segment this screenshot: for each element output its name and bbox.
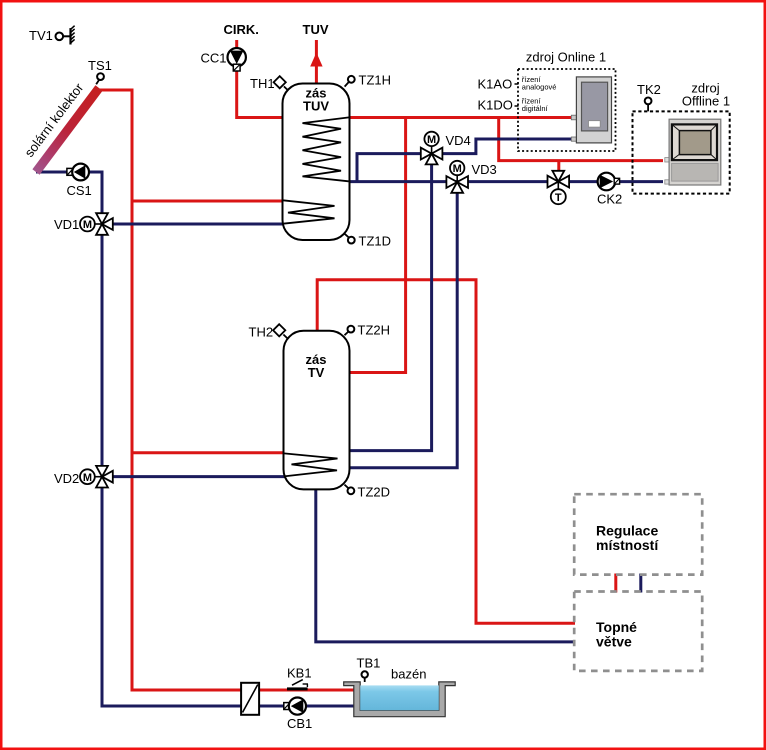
svg-text:TZ2H: TZ2H xyxy=(358,323,391,338)
sensor TZ1D xyxy=(345,234,391,249)
offline boiler icon xyxy=(665,119,721,185)
valve VD3 xyxy=(446,161,496,193)
svg-text:M: M xyxy=(83,219,92,231)
pump CC1 with check valve xyxy=(201,22,259,71)
sensor TB1 xyxy=(357,656,381,683)
pump CS1 with check valve xyxy=(67,164,92,198)
svg-text:T: T xyxy=(555,192,562,204)
svg-text:CIRK.: CIRK. xyxy=(224,22,259,37)
TUV arrow xyxy=(303,22,329,67)
online boiler icon xyxy=(571,77,611,143)
svg-text:CK2: CK2 xyxy=(597,192,622,207)
wire red to offline boiler xyxy=(499,118,663,161)
pump CK2 with check valve xyxy=(597,173,622,207)
filter xyxy=(241,683,259,715)
switch KB1 xyxy=(287,666,312,691)
svg-text:větve: větve xyxy=(596,634,632,650)
tank zas TV xyxy=(284,331,350,490)
wire navy VD1 branch to tank1 xyxy=(102,223,284,226)
svg-text:bazén: bazén xyxy=(391,667,426,682)
svg-text:TH2: TH2 xyxy=(249,325,274,340)
wire red main supply to online boiler xyxy=(349,116,572,119)
svg-text:K1AO: K1AO xyxy=(478,77,513,92)
wire navy VD4 down to tank2 xyxy=(350,155,432,451)
wire navy tank2 bottom to heating branches xyxy=(316,490,575,642)
wire navy tank1 right main return xyxy=(350,180,664,183)
svg-text:zdroj Online 1: zdroj Online 1 xyxy=(526,50,606,65)
wire navy VD4 line to online boiler xyxy=(357,139,572,182)
svg-text:VD1: VD1 xyxy=(54,217,79,232)
svg-text:M: M xyxy=(427,134,436,146)
wire navy VD2 branch to tank2 xyxy=(102,475,285,478)
wire red TUV outlet xyxy=(315,40,318,85)
zdroj Offline 1 box xyxy=(633,81,731,194)
svg-text:místností: místností xyxy=(596,537,659,553)
svg-text:K1DO: K1DO xyxy=(478,98,513,113)
zdroj Online 1 box xyxy=(478,50,616,152)
svg-text:CS1: CS1 xyxy=(67,183,92,198)
solar collector xyxy=(21,80,102,175)
svg-text:CB1: CB1 xyxy=(287,716,312,731)
svg-text:TZ2D: TZ2D xyxy=(358,485,391,500)
Topne vetve box xyxy=(574,592,702,671)
svg-text:CC1: CC1 xyxy=(201,50,227,65)
svg-text:TZ1H: TZ1H xyxy=(359,72,392,87)
pump CB1 with check valve xyxy=(284,698,312,732)
pool bazen xyxy=(344,667,456,717)
sensor TZ2H xyxy=(345,323,391,338)
valve VD4 xyxy=(421,132,471,165)
wire red branch to tank2 coil xyxy=(132,451,285,454)
svg-text:TB1: TB1 xyxy=(357,656,381,671)
svg-text:VD4: VD4 xyxy=(446,133,471,148)
svg-text:TUV: TUV xyxy=(303,22,329,37)
sensor TH1 xyxy=(250,76,288,91)
wire red CIRK line xyxy=(237,40,284,118)
wire red tank2 right riser xyxy=(350,118,406,373)
svg-text:digitální: digitální xyxy=(522,104,549,113)
wire red tick regulace xyxy=(614,574,617,593)
svg-text:VD3: VD3 xyxy=(472,162,497,177)
Regulace mistnosti box xyxy=(574,494,702,574)
svg-text:TV: TV xyxy=(308,365,325,380)
svg-text:VD2: VD2 xyxy=(54,471,79,486)
svg-text:analogové: analogové xyxy=(522,82,557,91)
svg-text:TH1: TH1 xyxy=(250,76,275,91)
sensor TZ2D xyxy=(345,485,391,500)
sensor TZ1H xyxy=(345,72,391,87)
svg-text:KB1: KB1 xyxy=(287,666,312,681)
wire red branch to tank1 lower coil xyxy=(132,200,284,203)
svg-text:M: M xyxy=(83,472,92,484)
svg-text:M: M xyxy=(453,163,462,175)
sensor TS1 xyxy=(88,58,112,85)
valve VD1 xyxy=(54,213,113,235)
wire red solar loop xyxy=(99,90,354,690)
wire navy tick regulace xyxy=(639,574,642,593)
svg-text:TK2: TK2 xyxy=(637,82,661,97)
svg-text:TZ1D: TZ1D xyxy=(359,234,392,249)
svg-text:TS1: TS1 xyxy=(88,58,112,73)
sensor TH2 xyxy=(249,324,288,339)
tank zas TUV xyxy=(283,84,350,241)
valve VD2 xyxy=(54,466,113,488)
svg-text:Offline 1: Offline 1 xyxy=(682,93,730,108)
svg-text:TV1: TV1 xyxy=(29,28,53,43)
sensor TK2 xyxy=(637,82,661,112)
sensor TV1 outdoor xyxy=(29,26,75,45)
wire red T-valve branch xyxy=(557,161,560,172)
svg-text:TUV: TUV xyxy=(303,98,329,113)
wire red tank2 top to heating branches xyxy=(317,280,575,624)
wire navy solar return main xyxy=(36,172,354,706)
valve T thermostatic xyxy=(548,171,570,204)
wire navy VD3 down to tank2 xyxy=(350,183,457,468)
